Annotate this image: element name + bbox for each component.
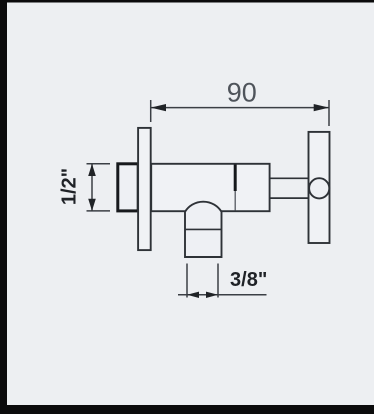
svg-text:1/2": 1/2" xyxy=(59,168,81,205)
stem line bottom xyxy=(270,197,310,199)
dimension 3/8 label xyxy=(230,269,267,291)
bonnet divider line xyxy=(234,165,237,211)
outlet tube with dome top xyxy=(185,202,222,257)
dimension 90 arrow left xyxy=(151,104,166,111)
dimension 90 line xyxy=(151,107,329,109)
dimension 90 arrow right xyxy=(314,104,329,111)
dimension 1/2 arrow up xyxy=(88,164,96,176)
page edge top bar xyxy=(0,0,374,3)
valve body xyxy=(151,164,269,211)
inlet nipple 1/2 inch xyxy=(118,164,138,211)
outlet coupling seam xyxy=(185,228,222,230)
page edge bottom bar xyxy=(0,405,374,414)
dimension 3/8 extension line left xyxy=(186,264,188,298)
dimension 1/2 label xyxy=(59,168,81,205)
dimension 3/8 extension line right xyxy=(217,264,219,298)
dimension 1/2 extension tick top xyxy=(87,163,111,165)
dimension 1/2 line xyxy=(91,164,93,211)
dimension 90 extension line left xyxy=(150,100,152,122)
svg-text:90: 90 xyxy=(227,78,257,108)
svg-text:3/8": 3/8" xyxy=(230,269,267,291)
dimension 90 extension line right xyxy=(328,100,330,126)
handle hub circle xyxy=(309,178,329,198)
stem line top xyxy=(270,177,310,179)
page edge left bar xyxy=(0,0,7,414)
dimension 3/8 arrow left xyxy=(187,292,199,298)
dimension 1/2 extension tick bottom xyxy=(87,210,111,212)
cross handle bar xyxy=(309,132,330,243)
dimension 90 label xyxy=(227,78,257,108)
wall flange xyxy=(138,128,151,250)
dimension 3/8 arrow right xyxy=(206,292,218,298)
dimension 3/8 line xyxy=(178,294,267,296)
dimension 1/2 arrow down xyxy=(88,199,96,211)
